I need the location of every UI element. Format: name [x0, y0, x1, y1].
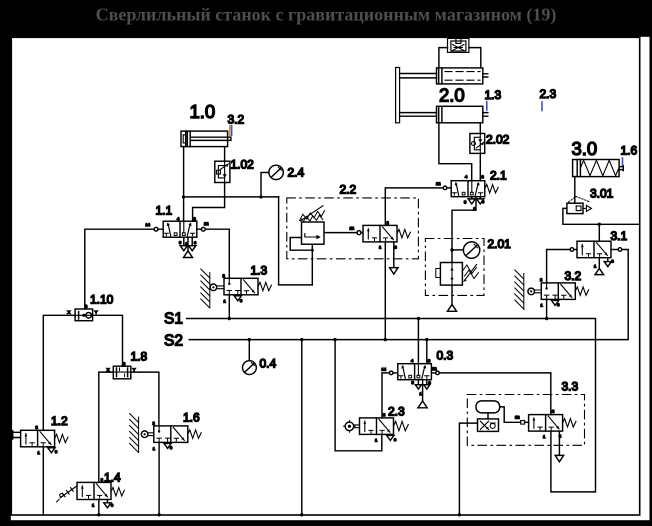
spring (valve 2.1) — [485, 185, 498, 193]
spring (valve 1.6) — [188, 430, 201, 438]
exhaust stub and triangle (timer valve) — [390, 242, 398, 274]
one-way flow control 2.02 — [470, 134, 485, 154]
position tick 1.3 — [486, 102, 488, 111]
svg-text:1.02: 1.02 — [231, 158, 255, 172]
wire cylinder 2.0 right port to valve 2.02 — [479, 123, 481, 134]
svg-text:2.3: 2.3 — [540, 87, 557, 101]
spring (valve 1.3) — [258, 282, 271, 290]
wire up to gauge 2.4 — [261, 173, 269, 197]
svg-text:3.2: 3.2 — [565, 269, 582, 283]
drill mounting bridge — [439, 48, 481, 68]
svg-text:1.0: 1.0 — [190, 101, 216, 122]
wire S2 to bottom supply rail — [301, 340, 303, 515]
wire branch to gauge 2.4 / timer tap — [184, 196, 279, 198]
svg-text:3.01: 3.01 — [590, 187, 614, 201]
idle return roller actuator (valve 1.4) — [57, 486, 77, 502]
shuttle valve 1.10 (OR) — [75, 309, 93, 321]
wire shuttle 1.10 X input from valve 1.2 — [43, 315, 75, 430]
svg-text:3.2: 3.2 — [228, 113, 245, 127]
pilot circle right (valve 0.3) — [436, 371, 440, 375]
node at bypass junction — [311, 249, 314, 252]
position tick 3.2 — [230, 126, 232, 136]
exhaust stub and triangle (valve 3.1) — [604, 258, 611, 267]
wire valve 2.3 port 1 supply loop from S2 — [335, 340, 382, 451]
pilot circle (valve 2.1) — [443, 186, 447, 190]
timer group 2.2 dash-dot box — [287, 198, 419, 259]
svg-text:1.6: 1.6 — [183, 411, 200, 425]
position tick 2.3 — [541, 102, 543, 111]
guide rail (upper slide body) — [400, 68, 488, 84]
carriage plate (vertical bar) — [396, 68, 400, 123]
valve 1.6 (3/2 roller limit valve, NC) — [154, 426, 188, 443]
wire pilot 14 of 0.3 to valve 2.3 output — [382, 373, 389, 418]
svg-text:12: 12 — [436, 181, 441, 186]
svg-text:2.0: 2.0 — [439, 85, 465, 106]
node junction on clamp line — [182, 195, 185, 198]
one-way flow control (group 3.3) — [478, 419, 499, 432]
exhaust triangle (valve 2.3) — [387, 434, 394, 440]
svg-text:2.1: 2.1 — [490, 169, 507, 183]
exhaust triangle (valve 1.6) — [164, 442, 171, 448]
wire pilot left of 3.1 to valve 3.2 output — [547, 250, 571, 283]
valve 2.1 (5/2 way pilot valve with spring return) — [451, 181, 485, 197]
node junction at valve 3.1 output — [598, 223, 601, 226]
cylinder 3.0 (ejecting cylinder, single acting spring return) — [573, 160, 624, 177]
wire cylinder 2.0 left port down to valve 2.1 port 4 — [439, 123, 472, 181]
wire valve 1.3 port 1 to S1 — [228, 295, 230, 319]
regulator group 2.01 dash-dot box — [425, 239, 484, 296]
throttle valve of timer 2.2 — [300, 206, 325, 244]
svg-text:2.02: 2.02 — [486, 133, 510, 147]
svg-text:2.01: 2.01 — [488, 237, 512, 251]
valve 2.3 (3/2 roller limit valve) — [360, 418, 394, 435]
svg-text:1.3: 1.3 — [485, 88, 502, 102]
gauge 0.4 (pressure gauge on S2) — [248, 340, 250, 361]
valve 1.4 (3/2 idle return roller valve) — [77, 482, 111, 499]
cylinder 1.0 (clamping cylinder, double acting) — [181, 131, 231, 147]
one-way flow control 1.02 — [215, 161, 230, 182]
wire pilot 12 of 1.1 to valve 1.3 output — [197, 229, 230, 278]
svg-text:1.6: 1.6 — [621, 144, 638, 158]
svg-text:2.2: 2.2 — [340, 183, 357, 197]
wire valve 2.02 down to valve 2.1 port 2 — [479, 153, 481, 180]
wire cylinder 1.0 right port to valve 1.02 — [224, 147, 226, 162]
svg-text:Y: Y — [133, 367, 136, 372]
gauge 2.4 (pressure gauge) — [269, 165, 283, 179]
wire flow control 3.3 to bottom supply rail — [459, 423, 477, 515]
wire valve 2.1 port 1 down to regulator 2.01 — [452, 197, 476, 263]
roller (valve 3.2) — [528, 288, 535, 295]
valve 3.1 (3/2 double pilot valve) — [577, 241, 611, 258]
pilot circle (timer valve 2.2) — [357, 231, 361, 235]
svg-text:12: 12 — [515, 415, 520, 420]
svg-text:12: 12 — [350, 226, 355, 231]
node junction gauge branch — [259, 195, 262, 198]
wire cylinder 1.0 left port down to valve 1.1 port 4 — [183, 147, 185, 222]
cam wall hatching (valve 1.3) — [201, 269, 210, 308]
wire cylinder 3.0 port down to quick exhaust 3.01 — [574, 177, 576, 204]
exhaust stubs and triangles (valve 0.3) — [418, 380, 426, 385]
node at gauge 2.01 tap — [450, 248, 453, 251]
cam wall hatching (valve 3.2) — [515, 270, 524, 310]
pilot circle right (valve 1.1) — [201, 227, 205, 231]
spring (valve 2.3) — [394, 421, 409, 430]
pushbutton actuator (valve 1.2) — [13, 431, 21, 439]
group 3.3 dash-dot box — [467, 395, 584, 446]
svg-text:3.3: 3.3 — [562, 380, 579, 394]
exhaust stub and triangle (valve 1.4) — [104, 500, 111, 508]
svg-text:0.3: 0.3 — [437, 349, 454, 363]
svg-text:3.0: 3.0 — [572, 138, 598, 159]
wire throttle output to timer valve pilot — [324, 232, 357, 234]
valve 3.2 (3/2 roller limit valve, NC) — [541, 283, 575, 300]
timer 3/2 valve (2.2) — [363, 225, 397, 242]
svg-text:1.10: 1.10 — [90, 293, 114, 307]
valve 1.3 (3/2 roller limit valve, NC) — [224, 278, 258, 295]
svg-text:1.4: 1.4 — [104, 471, 121, 485]
vent line and supply triangle (regulator 2.01) — [451, 285, 453, 304]
supply stub and triangle (valve 3.1) — [598, 258, 600, 269]
svg-text:3.1: 3.1 — [611, 229, 628, 243]
wire valve 1.8 Y input from valve 1.6 — [131, 372, 159, 426]
svg-text:0.4: 0.4 — [260, 357, 277, 371]
svg-text:1.3: 1.3 — [251, 264, 268, 278]
pilot square (valve 3.3) — [521, 421, 525, 425]
bypass loop of throttle 2.2 — [290, 238, 312, 251]
air reservoir (group 3.3) — [476, 401, 500, 413]
wire down from tap to timer throttle bypass — [279, 197, 313, 285]
wire timer valve port 1 down to S2 — [384, 242, 386, 340]
position tick 1.6 — [622, 158, 624, 165]
valve 3.3 (3/2 pneumatic pilot valve) — [529, 415, 563, 432]
wire shuttle 1.10 Y input from valve 1.8 — [93, 315, 123, 366]
roller with detent (valve 2.3) — [345, 422, 354, 431]
pilot circle left (valve 3.1) — [570, 248, 574, 252]
supply line and triangle (valve 0.3) — [422, 380, 424, 401]
wire valve 0.3 port 4 up to S1 — [417, 319, 419, 364]
wire valve 3.2 port 1 to S1 — [546, 299, 548, 318]
roller (valve 1.3) — [210, 284, 217, 291]
wire valve 1.8 X input from valve 1.4 — [99, 372, 114, 482]
svg-text:14: 14 — [146, 222, 151, 227]
svg-text:S2: S2 — [164, 333, 183, 350]
link reservoir to pilot of valve 3.3 — [500, 407, 521, 422]
spring (valve 1.2) — [55, 434, 68, 442]
spring (valve 3.3) — [563, 419, 576, 427]
wire valve 0.3 port 2 up to S2 — [426, 340, 428, 364]
roller (valve 1.6) — [141, 431, 148, 438]
valve 0.3 (5/2 way double pilot valve) — [398, 364, 432, 380]
drill unit graphic on carriage — [448, 38, 469, 52]
wire valve 3.1 output up to junction — [598, 224, 600, 241]
wire quick exhaust to junction line y=224 — [563, 208, 640, 224]
two pressure valve 1.8 (AND) — [113, 366, 131, 379]
svg-text:Сверлильный станок с гравитаци: Сверлильный станок с гравитационным мага… — [96, 5, 557, 26]
supply line and triangle (valve 1.1) — [187, 237, 189, 251]
svg-text:14: 14 — [382, 367, 387, 372]
valve 1.1 (5/2 way double pilot valve) — [163, 221, 197, 237]
svg-text:X: X — [107, 367, 110, 372]
wire timer valve output up to pilot of valve 2.1 — [385, 188, 443, 226]
svg-text:1.2: 1.2 — [51, 414, 68, 428]
S1 signal line — [187, 319, 596, 492]
spring (timer valve) — [397, 229, 410, 237]
wire pilot 14 of 1.1 to shuttle 1.10 — [85, 229, 163, 309]
wire valve 1.6 port 1 to bottom supply rail — [158, 442, 160, 514]
spring (valve 1.4) — [111, 488, 124, 496]
cylinder 2.0 (feed cylinder, double acting) — [400, 106, 488, 123]
pilot circle left (valve 0.3) — [389, 371, 393, 375]
wire throttle down and left to clamp line tap — [311, 244, 313, 285]
wire pilot 12 of 0.3 to valve 3.3 output — [439, 373, 551, 415]
exhaust triangle (valve 1.2) — [48, 447, 55, 453]
svg-text:1.1: 1.1 — [156, 204, 173, 218]
exhaust stub and triangle (valve 3.3) — [555, 431, 563, 462]
svg-text:2.4: 2.4 — [288, 166, 305, 180]
svg-text:1.8: 1.8 — [131, 350, 148, 364]
spring (valve 3.2) — [575, 287, 588, 295]
wire valve 1.02 down to valve 1.1 port 2 — [193, 183, 225, 222]
pressure regulator 2.01 — [436, 263, 479, 286]
svg-text:12: 12 — [432, 366, 437, 371]
wire valve 1.2 port 1 to bottom supply rail — [42, 447, 44, 515]
quick exhaust valve 3.01 — [567, 197, 592, 214]
svg-text:12: 12 — [204, 221, 209, 226]
pilot circle right (valve 3.1) — [618, 248, 622, 252]
cam wall hatching (valve 1.6) — [130, 414, 139, 453]
svg-text:Y: Y — [95, 310, 98, 315]
gauge 2.01 (pressure gauge) — [452, 249, 463, 251]
svg-text:X: X — [68, 310, 71, 315]
exhaust triangle (valve 3.2) — [552, 299, 559, 305]
svg-text:S1: S1 — [164, 311, 183, 328]
S2 signal line — [189, 250, 628, 340]
svg-text:2.3: 2.3 — [388, 405, 405, 419]
link reservoir to throttle (group 3.3) — [487, 413, 489, 419]
exhaust stubs and triangles (valve 2.1) — [472, 197, 480, 199]
node on S1 at 1.3 — [228, 317, 231, 320]
pilot circle left (valve 1.1) — [154, 227, 158, 231]
exhaust triangle (valve 1.3) — [234, 295, 241, 301]
exhaust stubs and triangles (valve 1.1) — [184, 237, 192, 246]
valve 1.2 (3/2 pushbutton valve, start) — [21, 430, 55, 447]
wire valve 1.4 port 1 to bottom supply rail — [98, 500, 100, 515]
